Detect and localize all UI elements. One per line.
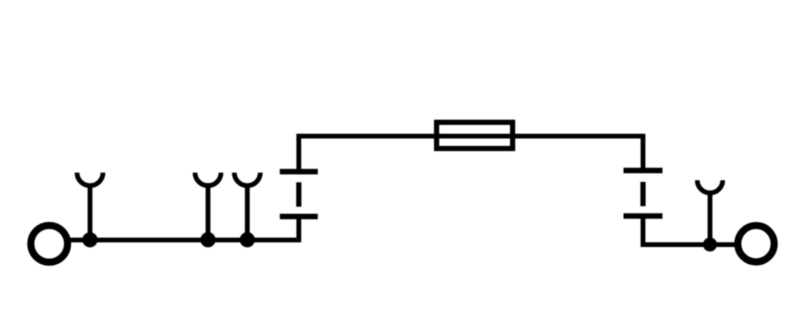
disconnect point (left): bottom bar (280, 214, 318, 220)
test socket TS2 (195, 173, 221, 240)
disconnect point (right): bottom bar (624, 213, 663, 219)
terminal circle X2 (right feed-through terminal) (738, 226, 774, 262)
terminal circle X1 (left feed-through terminal) (31, 225, 68, 262)
disconnect point (left): removable link dash (296, 182, 301, 206)
test socket TS3 (234, 173, 260, 240)
node: junction dot on right bus at test socket (703, 238, 717, 252)
node: junction dot on left bus at third test socket (240, 232, 255, 247)
test socket TS1 (stem + open semicircle) (77, 173, 103, 240)
fuse F1 (437, 122, 513, 148)
wire: top bus from left disconnect through fuse to right disconnect (299, 136, 643, 172)
test socket TS4 (697, 180, 722, 244)
disconnect point (right): top bar (624, 168, 663, 174)
node: junction dot on left bus at first test socket (82, 232, 97, 247)
disconnect point (left): top bar (280, 169, 318, 175)
disconnect point (right): removable link dash (640, 182, 645, 206)
wire: right bottom bus from right disconnect to right terminal (643, 216, 737, 245)
node: junction dot on left bus at second test socket (200, 232, 215, 247)
wire: left bottom bus with corner up to left disconnect (68, 217, 299, 241)
